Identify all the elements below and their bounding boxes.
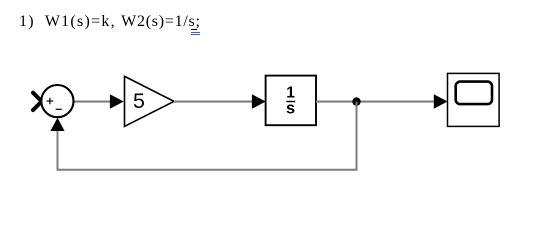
wire integrator to scope [316,101,436,103]
wire sum to gain [73,101,112,103]
scope block [448,73,500,126]
arrowhead into gain block [110,94,124,109]
plus sign [47,98,54,105]
arrowhead into sum junction (feedback) [50,118,64,131]
gain block triangle [125,76,175,126]
integrator block 1/s [266,76,316,126]
svg-text:5: 5 [133,89,145,113]
arrowhead into integrator block [252,94,266,109]
arrowhead into scope block [434,94,448,109]
wire gain to integrator [174,101,256,103]
feedback wire [58,102,357,170]
unconnected input marker X [33,93,42,110]
svg-text:s: s [286,99,295,117]
scope screen (inner rounded rect) [456,82,492,105]
branch node (junction dot) [352,97,360,105]
grammar-check blue double underline under "s;" [191,32,200,33]
black underline under "s" [191,29,197,30]
sum junction circle [41,85,73,117]
fraction bar [286,101,295,103]
minus sign [56,108,62,110]
title text "1) W1(s)=k, W2(s)=1/s;" [19,14,201,30]
